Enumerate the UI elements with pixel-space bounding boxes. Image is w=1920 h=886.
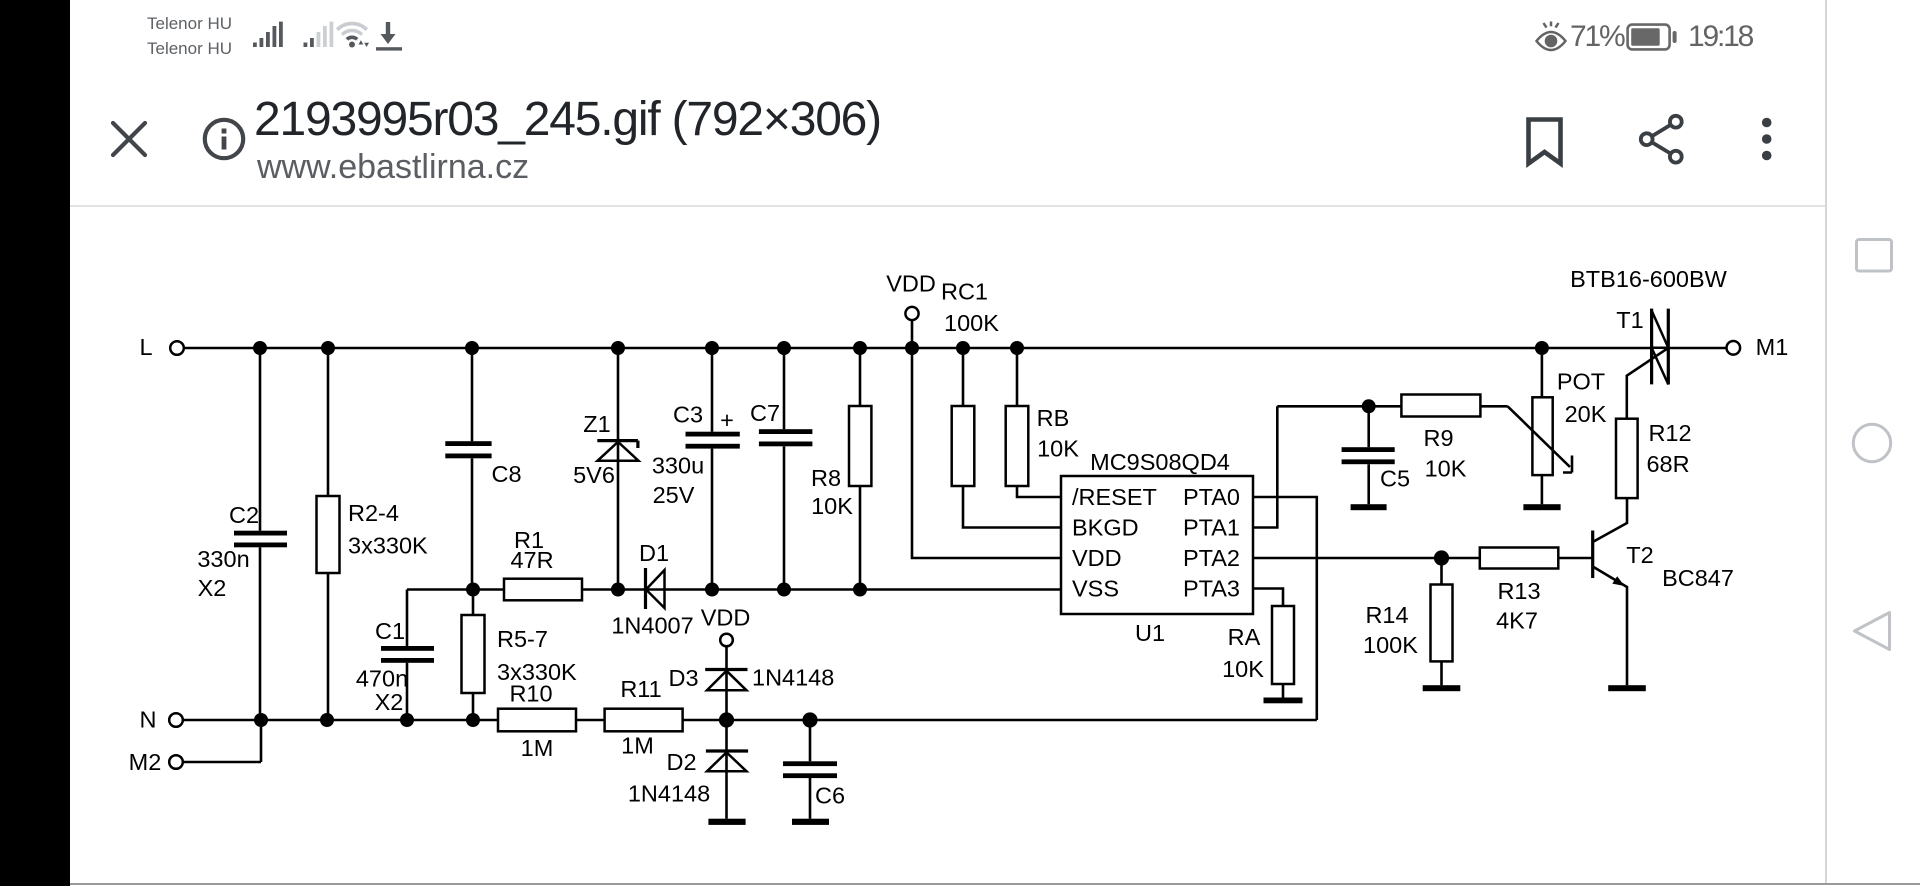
svg-text:470n: 470n <box>356 666 408 692</box>
svg-text:C5: C5 <box>1380 466 1410 492</box>
ground below R14 <box>1423 685 1461 691</box>
svg-text:N: N <box>140 707 157 733</box>
svg-text:1N4007: 1N4007 <box>611 613 693 639</box>
bookmark icon <box>1518 110 1570 172</box>
svg-text:RB: RB <box>1037 405 1070 431</box>
svg-text:100K: 100K <box>944 310 999 336</box>
header bottom separator <box>70 205 1825 207</box>
resistor R13 <box>1480 548 1559 634</box>
svg-text:BC847: BC847 <box>1662 565 1734 591</box>
svg-text:25V: 25V <box>653 482 695 508</box>
resistor RC1 <box>941 279 1061 528</box>
wire PTA1 up to R9 node <box>1253 406 1277 527</box>
pin PTA2 <box>1183 545 1240 571</box>
wire N rail <box>183 719 1317 722</box>
svg-text:R13: R13 <box>1497 578 1540 604</box>
svg-text:MC9S08QD4: MC9S08QD4 <box>1090 449 1230 475</box>
resistor R2-4 <box>317 348 429 720</box>
svg-text:X2: X2 <box>198 575 227 601</box>
svg-text:M2: M2 <box>129 749 162 775</box>
ground below C5 <box>1351 504 1387 510</box>
svg-text:1M: 1M <box>521 735 554 761</box>
svg-text:C8: C8 <box>491 461 521 487</box>
battery icon <box>1625 22 1679 54</box>
info (i) icon <box>200 115 248 163</box>
node L terminal <box>139 334 183 360</box>
ground below C6 <box>792 819 829 825</box>
svg-text:C1: C1 <box>375 618 405 644</box>
svg-text:100K: 100K <box>1363 632 1418 658</box>
node M1 terminal <box>1727 334 1789 360</box>
svg-text:/RESET: /RESET <box>1072 484 1157 510</box>
svg-text:PTA3: PTA3 <box>1183 576 1240 602</box>
wire POT wiper arrow <box>1508 406 1572 472</box>
svg-text:PTA0: PTA0 <box>1183 484 1240 510</box>
svg-text:U1: U1 <box>1135 620 1165 646</box>
overflow menu (3 dots) <box>1750 108 1784 172</box>
ground below T2 emitter <box>1608 685 1646 691</box>
svg-text:R2-4: R2-4 <box>348 500 399 526</box>
resistor R12 <box>1616 419 1692 498</box>
resistor RB <box>1006 348 1080 497</box>
svg-text:+: + <box>720 407 734 433</box>
svg-text:4K7: 4K7 <box>1496 608 1538 634</box>
svg-text:D1: D1 <box>639 540 669 566</box>
status bar right: eye icon <box>1534 20 1568 54</box>
svg-text:5V6: 5V6 <box>573 462 615 488</box>
svg-text:X2: X2 <box>375 689 404 715</box>
wire PTA2 row <box>1253 557 1593 560</box>
pin VSS <box>1072 576 1119 602</box>
svg-text:20K: 20K <box>1565 401 1607 427</box>
junction dots on mid rail <box>466 583 867 597</box>
diode D2 <box>628 720 748 819</box>
svg-text:R5-7: R5-7 <box>497 626 548 652</box>
resistor R9 <box>1401 395 1480 482</box>
capacitor C3 <box>652 348 740 590</box>
svg-text:PTA2: PTA2 <box>1183 545 1240 571</box>
svg-text:330u: 330u <box>652 453 704 479</box>
android nav: home circle <box>1846 417 1898 469</box>
resistor R14 <box>1363 558 1452 685</box>
node M2 terminal <box>129 749 183 775</box>
bottom gray hairline <box>70 883 1920 885</box>
svg-text:D2: D2 <box>666 749 696 775</box>
zener diode Z1 <box>573 348 638 590</box>
triac T1 BTB16-600BW <box>1570 266 1728 384</box>
svg-text:47R: 47R <box>510 547 553 573</box>
ground below D2 <box>708 819 745 825</box>
capacitor C2 <box>197 348 287 720</box>
wire mid rail (C1 corner to VSS) <box>407 588 1061 591</box>
android nav: back triangle <box>1846 605 1898 657</box>
wire R9 top rail <box>1277 405 1507 408</box>
wire PTA0 to N rail <box>1253 497 1317 720</box>
svg-text:C7: C7 <box>750 400 780 426</box>
svg-text:1N4148: 1N4148 <box>752 665 834 691</box>
svg-text:VDD: VDD <box>1072 545 1122 571</box>
wire M2 branch <box>183 720 261 762</box>
right nav-bar separator line <box>1825 0 1827 883</box>
junction dots on L rail <box>253 341 1549 355</box>
svg-text:1M: 1M <box>621 733 654 759</box>
svg-text:R8: R8 <box>811 465 841 491</box>
op-amp / MCU U1 MC9S08QD4 <box>1061 449 1253 646</box>
svg-text:10K: 10K <box>1222 656 1264 682</box>
capacitor C5 <box>1342 406 1410 504</box>
svg-text:R9: R9 <box>1423 425 1453 451</box>
share icon <box>1632 108 1692 172</box>
svg-text:C6: C6 <box>815 783 845 809</box>
junction dot R13/R14 node <box>1434 550 1449 565</box>
ground below POT <box>1523 504 1560 510</box>
svg-text:T2: T2 <box>1626 542 1653 568</box>
resistor R1 <box>504 527 582 600</box>
svg-text:Z1: Z1 <box>583 411 610 437</box>
svg-text:RC1: RC1 <box>941 279 988 305</box>
svg-text:10K: 10K <box>811 493 853 519</box>
svg-text:R12: R12 <box>1648 420 1691 446</box>
svg-text:POT: POT <box>1557 369 1605 395</box>
svg-text:PTA1: PTA1 <box>1183 515 1240 541</box>
svg-text:R14: R14 <box>1365 602 1408 628</box>
svg-text:VDD: VDD <box>701 605 751 631</box>
pin /RESET <box>1072 484 1157 510</box>
pin PTA3 <box>1183 576 1240 602</box>
svg-text:C3: C3 <box>673 402 703 428</box>
android nav: recents square <box>1848 231 1900 279</box>
close (X) icon <box>105 115 153 163</box>
svg-text:VDD: VDD <box>886 271 936 297</box>
svg-text:BTB16-600BW: BTB16-600BW <box>1570 266 1728 292</box>
resistor R8 <box>811 348 871 590</box>
wire T1 gate to R12 <box>1627 348 1668 418</box>
capacitor C6 <box>783 720 845 819</box>
pin VDD <box>1072 545 1122 571</box>
svg-text:C2: C2 <box>229 502 259 528</box>
svg-text:R11: R11 <box>620 676 661 702</box>
diode D3 <box>668 646 834 720</box>
transistor T2 BC847 <box>1593 498 1734 685</box>
capacitor C8 <box>445 348 521 590</box>
node N terminal <box>140 707 183 733</box>
pin PTA0 <box>1183 484 1240 510</box>
resistor RA <box>1222 606 1294 698</box>
svg-text:T1: T1 <box>1616 307 1643 333</box>
ground below RA <box>1264 698 1303 704</box>
node VDD terminal above D3 <box>701 605 751 647</box>
svg-text:330n: 330n <box>197 546 249 572</box>
pin PTA1 <box>1183 515 1240 541</box>
svg-text:3x330K: 3x330K <box>348 533 428 559</box>
diode D1 <box>611 540 693 639</box>
svg-text:VSS: VSS <box>1072 576 1119 602</box>
capacitor C1 <box>356 590 434 721</box>
left black letterbox bar <box>0 0 70 886</box>
svg-text:M1: M1 <box>1756 334 1789 360</box>
resistor R11 <box>605 676 683 759</box>
svg-text:10K: 10K <box>1037 436 1079 462</box>
potentiometer POT 20K <box>1532 348 1606 504</box>
svg-text:RA: RA <box>1228 624 1261 650</box>
svg-text:D3: D3 <box>668 665 698 691</box>
svg-text:10K: 10K <box>1425 456 1467 482</box>
resistor R5-7 <box>462 590 578 721</box>
node VDD supply terminal <box>886 271 936 321</box>
page url <box>257 148 529 187</box>
svg-text:BKGD: BKGD <box>1072 515 1139 541</box>
junction dot R9/C5 node <box>1362 399 1376 413</box>
wire L rail <box>183 347 1652 350</box>
wire L rail right segment to M1 <box>1668 347 1726 350</box>
capacitor C7 <box>750 348 812 590</box>
status bar: carrier names <box>147 11 232 61</box>
wire PTA3 to RA <box>1253 589 1283 607</box>
junction dots on N rail <box>254 712 818 727</box>
page title <box>254 92 881 147</box>
resistor R10 <box>498 681 576 762</box>
svg-text:R10: R10 <box>509 681 552 707</box>
wire VDD to MCU pin <box>912 320 1061 558</box>
pin BKGD <box>1072 515 1139 541</box>
svg-text:L: L <box>139 334 152 360</box>
status bar left icons <box>245 14 415 54</box>
svg-text:68R: 68R <box>1646 451 1689 477</box>
svg-text:1N4148: 1N4148 <box>628 781 710 807</box>
